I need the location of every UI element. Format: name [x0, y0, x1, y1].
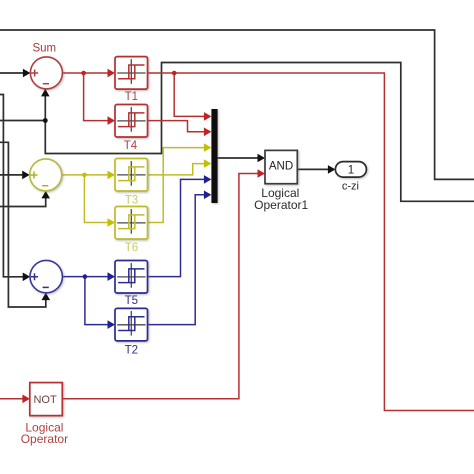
svg-text:T6: T6 [125, 242, 138, 254]
svg-text:Sum: Sum [32, 43, 56, 55]
svg-text:T1: T1 [125, 91, 138, 103]
svg-text:AND: AND [269, 161, 293, 173]
wire: top black feedback line [0, 30, 474, 179]
svg-text:Operator: Operator [21, 432, 68, 446]
relay T1 [115, 57, 148, 104]
svg-text:T2: T2 [125, 344, 138, 356]
wire: T1 output long red line to right edge, branch to mux input 1 [148, 71, 474, 411]
AND block Logical Operator1 [254, 150, 308, 212]
svg-text:1: 1 [348, 165, 354, 177]
sum block (blue) [30, 260, 62, 292]
wire: T3 output to mux input 4 [148, 159, 211, 175]
relay T6 [115, 207, 148, 255]
wire: NOT input from left edge [0, 395, 30, 404]
relay T3 [115, 159, 148, 207]
wire: yellow Sum minus input [0, 191, 50, 207]
svg-text:NOT: NOT [33, 394, 57, 406]
wire: T6 output to mux input 3 [148, 143, 211, 222]
wire: AND output to output port [297, 165, 335, 174]
output port 1 c-zi [335, 162, 366, 193]
wire: black feedback net into Sum minus [0, 63, 474, 202]
svg-text:Operator1: Operator1 [254, 198, 308, 212]
sum block (yellow) [30, 159, 62, 191]
svg-text:T4: T4 [124, 140, 138, 152]
svg-text:T5: T5 [125, 295, 138, 307]
wire: blue Sum plus input from left edge [0, 95, 30, 282]
NOT block Logical Operator [21, 383, 68, 447]
wire: blue Sum minus input from left edge [0, 142, 50, 307]
relay T2 [115, 308, 148, 356]
wire: NOT output up to AND input 2 [62, 169, 265, 399]
wire: T2 output to mux input 6 [148, 191, 212, 325]
relay T4 [115, 105, 148, 152]
wire: red Sum output to T1 and branch to T4 [62, 69, 115, 125]
relay T5 [115, 261, 148, 308]
wire: yellow Sum output to T3 and branch to T6 [62, 171, 115, 227]
wire: yellow Sum plus input [0, 171, 30, 180]
wire: red Sum plus input [0, 69, 30, 78]
svg-text:c-zi: c-zi [342, 180, 359, 192]
wire: mux output to AND input 1 [218, 154, 265, 163]
wire: T5 output to mux input 5 [148, 175, 212, 277]
sum block Sum (red) [30, 43, 62, 89]
wire: T4 output to mux input 2 [148, 121, 212, 137]
wire: blue Sum output to T5 and branch to T2 [63, 272, 115, 329]
mux bar [211, 109, 217, 203]
svg-text:T3: T3 [125, 195, 138, 207]
